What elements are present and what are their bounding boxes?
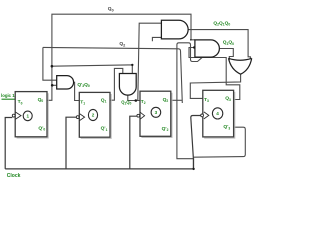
wire A3 output to OR gate right input xyxy=(188,30,250,59)
wire logic 1 input (green) xyxy=(2,98,16,100)
wire Q0 branch to AND gate A2 xyxy=(52,65,132,74)
and gate A4 (Q3Q0) xyxy=(195,40,219,57)
wire Q0 stub to AND gate A1 lower input xyxy=(52,84,57,86)
wire clock drop FF3 xyxy=(130,116,137,169)
svg-text:2: 2 xyxy=(92,113,95,118)
svg-text:logic 1: logic 1 xyxy=(1,93,15,98)
number circle FF2 xyxy=(88,109,97,120)
and gate A3 (Q2Q1Q0) xyxy=(161,20,188,39)
svg-text:3: 3 xyxy=(155,110,158,115)
number circle FF1 xyxy=(23,111,32,121)
svg-text:Q2: Q2 xyxy=(119,41,126,47)
svg-text:4: 4 xyxy=(216,111,219,116)
svg-text:Clock: Clock xyxy=(7,173,21,179)
wire vertical from A2 output up to AND gate A3 input xyxy=(138,23,162,100)
wire unlabeled long vertical with rounded corners xyxy=(177,43,202,169)
junction dot Q0/branch xyxy=(51,65,54,68)
flip-flop FF4 box xyxy=(203,90,234,137)
flip-flop FF3 box shadow xyxy=(141,93,172,138)
wire OR output down and left to T3 xyxy=(190,74,240,98)
wire A4 output to OR gate left input xyxy=(219,49,233,61)
flip-flop FF1 box shadow xyxy=(17,93,49,138)
wire H2 Q2-labelled rail with rounded corner descender xyxy=(43,47,182,103)
clock triangle FF2 xyxy=(80,114,85,121)
wire stub into AND gate A3 lower input xyxy=(152,37,161,41)
flip-flop FF2 box shadow xyxy=(81,94,112,138)
clock bubble FF4 xyxy=(201,114,204,117)
and gate A1 (T1 logic) xyxy=(57,76,74,89)
clock bubble FF3 xyxy=(137,114,140,117)
number circle FF4 xyxy=(212,108,222,119)
wire Q3: FF4 Q out up-left staircase to AND gate A4 lower input xyxy=(189,48,240,100)
junction dot A4 lower input xyxy=(193,46,195,48)
wire A1 output to T1 xyxy=(74,82,80,100)
svg-text:1: 1 xyxy=(27,114,30,119)
wire Q2 horizontal rail into V descender to AND gate A1 upper input xyxy=(43,47,57,80)
flip-flop FF1 box xyxy=(15,92,47,137)
wire clock drop FF2 xyxy=(66,117,76,169)
wire A2 output to T2 xyxy=(128,95,140,101)
flip-flop FF4 box shadow xyxy=(204,92,235,138)
wire clock drop FF1 xyxy=(5,118,12,169)
wire clock drop FF4 xyxy=(191,116,201,169)
wire Q1: FF2 Q out, up and over into AND gate A2 left input xyxy=(110,68,123,100)
clock bubble FF2 xyxy=(76,116,79,119)
clock triangle FF1 xyxy=(15,112,21,119)
svg-text:Q2Q1Q0: Q2Q1Q0 xyxy=(213,20,230,26)
junction dot Q0/A1 xyxy=(51,84,54,87)
junction dot T2 xyxy=(135,99,138,102)
flip-flop FF3 box xyxy=(140,91,171,136)
clock triangle FF3 xyxy=(140,112,145,119)
wire clock rail xyxy=(5,168,193,170)
wire Q0 net: FF1 Q out, up, top rail, down right side into AND gate A4 xyxy=(47,14,195,100)
wire Q3' feedback: FF4 right, down, left along bottom xyxy=(194,127,246,157)
number circle FF3 xyxy=(151,107,161,117)
or gate (down-pointing, T3) xyxy=(229,58,252,74)
clock triangle FF4 xyxy=(204,112,209,119)
and gate A2 (down-pointing, Q1Q0) xyxy=(119,74,136,96)
wire Q2 output of FF3 joining descender xyxy=(171,99,182,101)
junction dot clock rail end xyxy=(192,168,194,170)
junction dot A4 upper input corner xyxy=(190,39,192,41)
junction dot A2 branch corner xyxy=(131,64,133,66)
flip-flop FF2 box xyxy=(79,92,110,137)
clock bubble FF1 xyxy=(12,114,15,117)
svg-text:Q0: Q0 xyxy=(108,6,114,12)
